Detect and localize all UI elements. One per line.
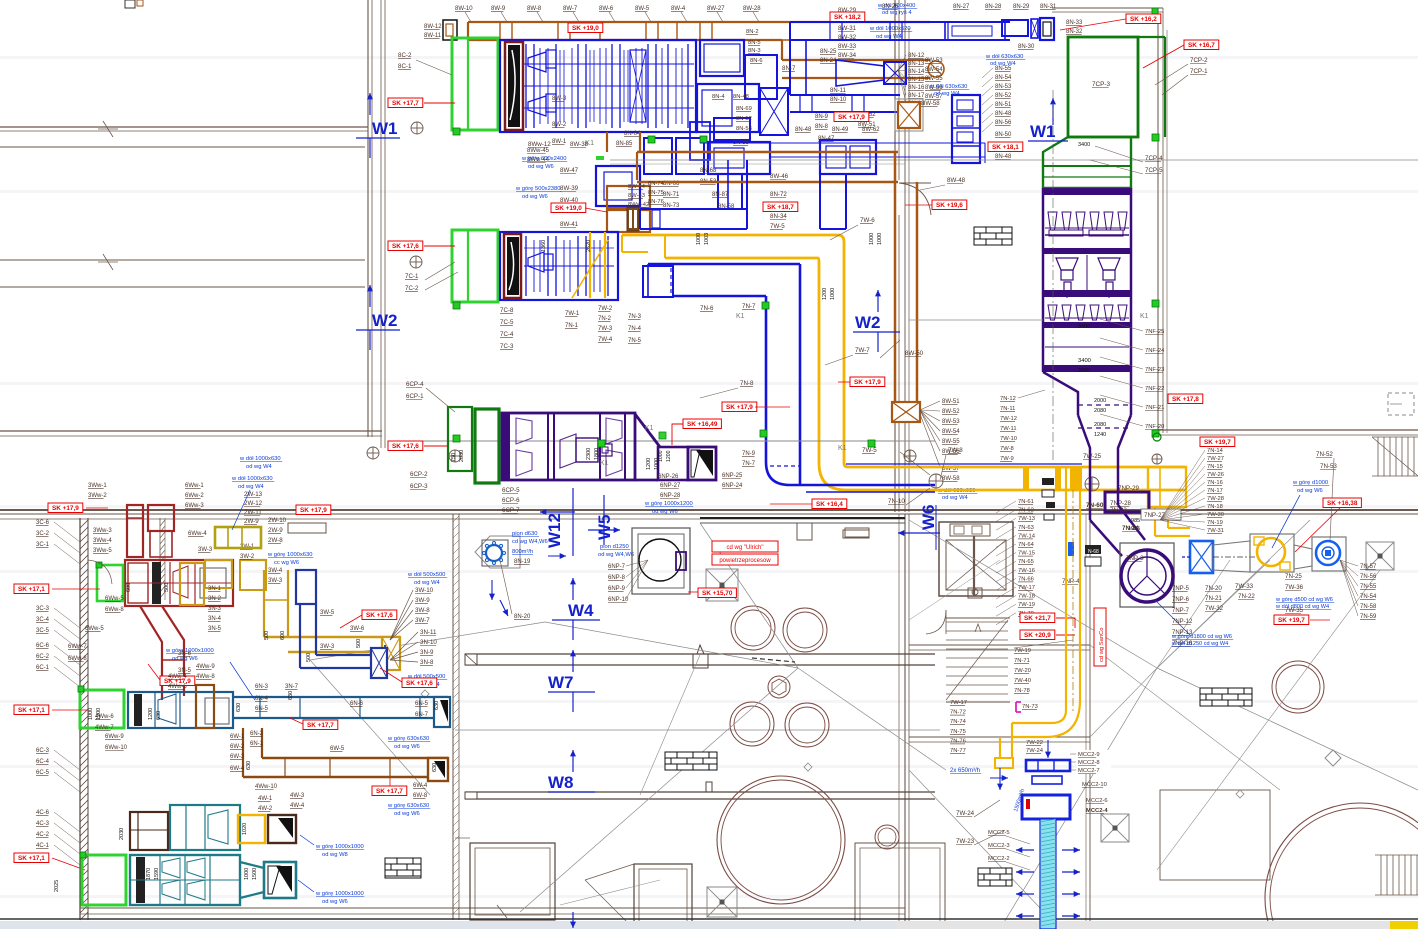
room rect bottom-center-right bbox=[634, 864, 692, 929]
duct 8W elbow right bbox=[782, 21, 930, 23]
svg-text:K1: K1 bbox=[1140, 313, 1149, 320]
red SK +21,7 / +20,9 bbox=[1020, 613, 1055, 623]
yellow 4W box bbox=[238, 815, 265, 843]
svg-text:SK +17,6: SK +17,6 bbox=[392, 243, 419, 250]
svg-text:w górę 600x2400: w górę 600x2400 bbox=[521, 156, 566, 162]
svg-text:1590: 1590 bbox=[154, 868, 160, 880]
svg-text:8Ww-12: 8Ww-12 bbox=[528, 141, 551, 148]
svg-text:3400: 3400 bbox=[1078, 324, 1090, 330]
svg-text:7NP-5: 7NP-5 bbox=[1172, 586, 1190, 592]
svg-text:630: 630 bbox=[434, 701, 440, 710]
svg-text:K1: K1 bbox=[600, 460, 609, 467]
svg-text:3W-3: 3W-3 bbox=[198, 547, 213, 553]
roof diagonals center bbox=[545, 622, 798, 668]
svg-text:w dół 1000x620: w dół 1000x620 bbox=[869, 26, 911, 32]
gray arc door bottom-left bbox=[88, 560, 112, 584]
svg-text:7W-24: 7W-24 bbox=[956, 810, 975, 817]
brown 6W vertical piece near AHU bbox=[196, 685, 214, 728]
svg-text:MCC2-4: MCC2-4 bbox=[1086, 808, 1108, 814]
device 6NP-7 square fan bbox=[632, 528, 690, 594]
svg-text:powietrzeprocesow: powietrzeprocesow bbox=[719, 558, 771, 564]
svg-text:7W-27: 7W-27 bbox=[1207, 456, 1224, 462]
svg-text:8N-29: 8N-29 bbox=[1013, 4, 1030, 10]
lime box 6C bbox=[80, 690, 124, 728]
svg-text:3C-1: 3C-1 bbox=[36, 542, 50, 548]
6NP fan bells bbox=[516, 418, 532, 444]
svg-text:6Ww-9: 6Ww-9 bbox=[105, 734, 124, 740]
svg-text:8N-56: 8N-56 bbox=[995, 120, 1012, 126]
svg-text:7N-55: 7N-55 bbox=[1360, 584, 1377, 590]
svg-text:8W-28: 8W-28 bbox=[743, 6, 761, 12]
AHU2 internals bbox=[525, 236, 527, 296]
svg-text:SK +17,9: SK +17,9 bbox=[726, 404, 753, 411]
svg-text:8N-64: 8N-64 bbox=[624, 131, 641, 137]
svg-text:7N-19: 7N-19 bbox=[1207, 520, 1223, 526]
svg-text:2030: 2030 bbox=[459, 450, 465, 462]
svg-text:w górę d500 cd wg W6: w górę d500 cd wg W6 bbox=[1275, 597, 1333, 603]
gray line y160 bbox=[610, 159, 1418, 161]
long wall y510 bbox=[0, 509, 1418, 511]
svg-text:6CP-6: 6CP-6 bbox=[502, 497, 520, 504]
svg-text:1360: 1360 bbox=[541, 240, 547, 252]
svg-text:8W-2: 8W-2 bbox=[552, 122, 567, 128]
svg-text:7N-57: 7N-57 bbox=[1360, 564, 1377, 570]
svg-text:8N-74: 8N-74 bbox=[648, 181, 665, 187]
svg-text:W8: W8 bbox=[548, 773, 574, 792]
brown damper box 8W end bbox=[892, 402, 920, 422]
svg-text:7W-33: 7W-33 bbox=[1235, 583, 1254, 590]
svg-text:1000: 1000 bbox=[88, 708, 94, 720]
red SK +17,8 tower bbox=[1168, 394, 1203, 404]
svg-text:3Ww-3: 3Ww-3 bbox=[93, 528, 112, 534]
svg-text:7N-72: 7N-72 bbox=[950, 710, 966, 716]
svg-text:630: 630 bbox=[432, 763, 438, 772]
svg-text:8N-27: 8N-27 bbox=[953, 4, 970, 10]
leader fan 8W-51..58 right col bbox=[920, 401, 940, 410]
small dark boxes at 7N-60 crossing bbox=[1042, 478, 1054, 485]
svg-text:3W-9: 3W-9 bbox=[415, 597, 430, 604]
MCC labels bbox=[1077, 750, 1111, 758]
svg-text:1200: 1200 bbox=[148, 708, 154, 720]
maroon inlet AHU1 bbox=[505, 42, 523, 130]
svg-text:SK +16,2: SK +16,2 bbox=[1130, 16, 1157, 23]
svg-text:SK +17,9: SK +17,9 bbox=[300, 507, 327, 514]
svg-text:4C-1: 4C-1 bbox=[36, 843, 50, 849]
svg-text:6N-3: 6N-3 bbox=[255, 684, 269, 690]
svg-text:7N-25: 7N-25 bbox=[1285, 573, 1302, 580]
svg-text:8W-33: 8W-33 bbox=[838, 43, 857, 50]
svg-text:1000: 1000 bbox=[877, 233, 883, 245]
steel 6N duct run bbox=[233, 696, 448, 698]
svg-text:6NP-25: 6NP-25 bbox=[722, 473, 743, 479]
svg-text:6W-3: 6W-3 bbox=[230, 754, 245, 760]
svg-text:4W-4: 4W-4 bbox=[290, 803, 305, 809]
svg-text:8N-3: 8N-3 bbox=[748, 48, 761, 54]
svg-text:6C-3: 6C-3 bbox=[36, 748, 50, 754]
svg-text:8N-68: 8N-68 bbox=[700, 168, 717, 174]
svg-text:od wg W4: od wg W4 bbox=[238, 484, 265, 490]
diamond near Ulrich bbox=[706, 569, 738, 601]
svg-text:7N-21: 7N-21 bbox=[1205, 595, 1222, 602]
svg-text:8N-9: 8N-9 bbox=[815, 114, 829, 120]
svg-text:6NP-27: 6NP-27 bbox=[660, 483, 681, 489]
svg-text:8W-53: 8W-53 bbox=[925, 58, 943, 64]
wall top-left horizontal upper bbox=[0, 126, 368, 128]
MCC2 big blue box bbox=[1022, 795, 1070, 819]
thin blue lines y143/152 bbox=[700, 142, 985, 144]
svg-text:7NF-22: 7NF-22 bbox=[1145, 386, 1164, 392]
svg-text:7N-16: 7N-16 bbox=[1207, 480, 1223, 486]
7NP-27 white box label bbox=[1141, 509, 1181, 520]
svg-text:4Ww-4: 4Ww-4 bbox=[168, 674, 187, 680]
svg-text:8N-5: 8N-5 bbox=[748, 40, 761, 46]
svg-text:8N-53: 8N-53 bbox=[736, 126, 752, 132]
red SK +19,6 bbox=[932, 200, 967, 210]
svg-text:2300: 2300 bbox=[586, 448, 592, 460]
svg-text:MCC2-6: MCC2-6 bbox=[1086, 798, 1108, 804]
svg-text:SK +17,7: SK +17,7 bbox=[376, 788, 403, 795]
svg-text:w dół d1250 cd wg W4: w dół d1250 cd wg W4 bbox=[1171, 641, 1228, 647]
rooms bottom right of wall bbox=[855, 843, 945, 929]
svg-text:2000: 2000 bbox=[1094, 398, 1106, 404]
svg-text:7W-25: 7W-25 bbox=[1083, 453, 1102, 460]
beams right of wall y645 bbox=[909, 644, 1090, 646]
svg-text:7N-74: 7N-74 bbox=[950, 719, 967, 725]
wall top-left bottom pair bbox=[0, 430, 382, 432]
7CP-3 dark green box bbox=[1068, 37, 1138, 137]
cyan hatched strip bbox=[1040, 819, 1056, 929]
svg-text:600: 600 bbox=[126, 583, 132, 592]
yellow risers AHU2 bbox=[589, 232, 591, 298]
svg-text:od wg W4: od wg W4 bbox=[246, 464, 273, 470]
door arc center wall bbox=[899, 183, 931, 215]
svg-text:7W-4: 7W-4 bbox=[598, 337, 613, 343]
labels 7W-17..7N-76 left col (x952) done above; add 7W-18/19 leaders bbox=[1014, 640, 1073, 648]
svg-text:w górę d1800 cd wg W6: w górę d1800 cd wg W6 bbox=[1171, 634, 1232, 640]
svg-text:8N-4: 8N-4 bbox=[712, 94, 725, 100]
svg-text:7N-58: 7N-58 bbox=[1360, 604, 1377, 610]
svg-text:6C-2: 6C-2 bbox=[36, 654, 50, 660]
svg-text:W1: W1 bbox=[1030, 122, 1056, 141]
svg-text:w dół 500x500: w dół 500x500 bbox=[407, 572, 445, 578]
svg-text:3N-5: 3N-5 bbox=[208, 626, 222, 632]
svg-text:6N-4: 6N-4 bbox=[255, 696, 269, 702]
svg-text:7NP-7: 7NP-7 bbox=[1172, 608, 1190, 614]
red labels center bbox=[850, 377, 885, 387]
svg-text:8N-69: 8N-69 bbox=[736, 106, 752, 112]
svg-text:3400: 3400 bbox=[1078, 358, 1091, 364]
svg-text:8N-71: 8N-71 bbox=[663, 192, 680, 198]
wall vertical x453 center-bottom bbox=[452, 514, 454, 920]
svg-text:3N-4: 3N-4 bbox=[208, 616, 222, 622]
svg-text:7W-40: 7W-40 bbox=[1014, 678, 1031, 684]
svg-text:8W-46: 8W-46 bbox=[770, 173, 789, 180]
svg-text:6Ww-5: 6Ww-5 bbox=[105, 596, 124, 602]
svg-text:6W-1: 6W-1 bbox=[230, 734, 245, 740]
svg-text:7W-28: 7W-28 bbox=[1207, 496, 1224, 502]
svg-text:8N-31: 8N-31 bbox=[1040, 4, 1057, 10]
pylon diamond bottom-center bbox=[707, 887, 737, 917]
svg-text:8N-52: 8N-52 bbox=[995, 93, 1012, 99]
duct 8W top brown run bbox=[468, 21, 782, 23]
svg-text:6N-7: 6N-7 bbox=[415, 712, 429, 718]
beam thin y730 bbox=[455, 729, 940, 731]
svg-text:8W-27: 8W-27 bbox=[707, 6, 725, 12]
svg-text:MCC2-8: MCC2-8 bbox=[1078, 760, 1100, 766]
svg-text:3W-8: 3W-8 bbox=[415, 607, 430, 614]
svg-text:7W-19: 7W-19 bbox=[1018, 602, 1035, 608]
svg-text:8N-28: 8N-28 bbox=[985, 4, 1002, 10]
beams center band2 bbox=[465, 791, 935, 793]
svg-text:7N-9: 7N-9 bbox=[742, 451, 756, 457]
svg-text:8N-48: 8N-48 bbox=[995, 111, 1012, 117]
svg-text:8N-10: 8N-10 bbox=[830, 97, 847, 103]
survey circles left bbox=[411, 122, 423, 134]
svg-text:od wg W6: od wg W6 bbox=[172, 656, 198, 662]
svg-text:w dół 1000x630: w dół 1000x630 bbox=[239, 456, 281, 462]
svg-text:630: 630 bbox=[156, 711, 162, 720]
svg-text:8N-19: 8N-19 bbox=[514, 559, 531, 565]
wall right horizontal y430 bbox=[1158, 429, 1418, 431]
svg-text:7N-75: 7N-75 bbox=[950, 729, 966, 735]
svg-text:8W-6: 8W-6 bbox=[599, 6, 614, 12]
yellow flange bars on horizontal bbox=[1023, 468, 1029, 489]
svg-text:7N-7: 7N-7 bbox=[742, 461, 756, 467]
svg-text:2080: 2080 bbox=[1094, 408, 1106, 414]
svg-text:6C-5: 6C-5 bbox=[36, 770, 50, 776]
svg-text:7W-1: 7W-1 bbox=[565, 311, 580, 317]
svg-text:8Ww-45: 8Ww-45 bbox=[527, 148, 550, 154]
brown boxes 8W-40/41 bbox=[607, 186, 650, 208]
svg-text:7N-63: 7N-63 bbox=[1018, 525, 1034, 531]
svg-text:7W-31: 7W-31 bbox=[1207, 528, 1224, 534]
svg-text:7N-12: 7N-12 bbox=[1000, 396, 1016, 402]
svg-text:w górę 500x2380: w górę 500x2380 bbox=[515, 186, 560, 192]
stairs right lower (x1375,y860) bbox=[1375, 854, 1418, 856]
svg-text:7W-13: 7W-13 bbox=[1018, 516, 1035, 522]
svg-text:SK +19,0: SK +19,0 bbox=[555, 205, 582, 212]
brown vertical 8W-50 bbox=[894, 152, 897, 402]
room rect bottom-center-left bbox=[470, 843, 555, 920]
svg-text:SK +17,1: SK +17,1 bbox=[18, 707, 45, 714]
yellow loop top horizontals bbox=[622, 234, 838, 237]
svg-text:8W-38: 8W-38 bbox=[570, 141, 589, 148]
damper circle 8W end bbox=[928, 61, 944, 77]
svg-text:7C-1: 7C-1 bbox=[405, 273, 419, 280]
blue 7N horizontals bbox=[648, 263, 800, 266]
svg-text:od wg W4,W6: od wg W4,W6 bbox=[598, 552, 634, 558]
svg-text:8W-1: 8W-1 bbox=[552, 139, 567, 145]
svg-text:8N-85: 8N-85 bbox=[616, 141, 633, 147]
6NP wedge box bbox=[688, 447, 716, 480]
svg-text:7N-18: 7N-18 bbox=[1207, 504, 1223, 510]
svg-text:6NP-9: 6NP-9 bbox=[608, 586, 626, 592]
svg-text:3400: 3400 bbox=[1078, 142, 1090, 148]
svg-text:cd wg W4,W6: cd wg W4,W6 bbox=[512, 539, 548, 545]
svg-text:8N-26: 8N-26 bbox=[882, 4, 899, 10]
svg-text:od wg W4: od wg W4 bbox=[414, 580, 441, 586]
purple tower bbox=[1042, 188, 1045, 372]
svg-text:7W-11: 7W-11 bbox=[1000, 426, 1017, 432]
svg-text:7CP-2: 7CP-2 bbox=[1190, 57, 1208, 64]
svg-text:3W-10: 3W-10 bbox=[415, 587, 434, 594]
svg-text:2x 650m³/h: 2x 650m³/h bbox=[950, 768, 980, 774]
teal AHU big bbox=[130, 855, 240, 905]
svg-text:cd wg "Ulrich": cd wg "Ulrich" bbox=[727, 545, 764, 551]
svg-text:8N-34: 8N-34 bbox=[770, 213, 787, 220]
svg-text:7W-12: 7W-12 bbox=[1000, 416, 1017, 422]
svg-text:6W-8: 6W-8 bbox=[413, 793, 428, 799]
svg-text:SK +18,2: SK +18,2 bbox=[834, 14, 861, 21]
yellow bottom elbow to horizontal bbox=[819, 463, 1185, 490]
svg-text:7C-3: 7C-3 bbox=[500, 343, 514, 350]
small wall marks left of elevator bbox=[843, 530, 869, 538]
yellow vertical to elbow bbox=[1154, 507, 1156, 536]
green markers tower bbox=[1152, 134, 1159, 141]
svg-text:7NP-4: 7NP-4 bbox=[1062, 578, 1080, 585]
svg-text:8W-41: 8W-41 bbox=[560, 221, 579, 228]
6NP AHU body bbox=[502, 413, 635, 480]
svg-text:7W-16: 7W-16 bbox=[1018, 568, 1035, 574]
svg-text:7N-2: 7N-2 bbox=[598, 316, 612, 322]
svg-text:3Ww-4: 3Ww-4 bbox=[93, 538, 112, 544]
svg-text:7N-60: 7N-60 bbox=[1086, 502, 1104, 509]
MCC blue bars bbox=[1026, 760, 1070, 771]
svg-text:6Ww-8: 6Ww-8 bbox=[68, 656, 87, 662]
red SanCo rotated note bbox=[1094, 608, 1106, 666]
svg-text:7C-2: 7C-2 bbox=[405, 285, 419, 292]
svg-text:8W-52: 8W-52 bbox=[942, 409, 960, 415]
svg-text:7W-7: 7W-7 bbox=[855, 347, 870, 354]
svg-text:6CP-1: 6CP-1 bbox=[406, 393, 424, 400]
svg-text:3W-4: 3W-4 bbox=[268, 568, 283, 574]
svg-text:od wg W4: od wg W4 bbox=[942, 495, 969, 501]
yellow bottom elbow to MCC bbox=[1012, 710, 1066, 723]
svg-text:SK +19,7: SK +19,7 bbox=[1204, 439, 1231, 446]
teal 4Ww upper row bbox=[130, 812, 168, 850]
svg-text:6NP-8: 6NP-8 bbox=[608, 575, 626, 581]
svg-text:6N-6: 6N-6 bbox=[350, 701, 364, 707]
wall top-right vertical x1158 bbox=[1157, 8, 1159, 433]
svg-text:SK +16,7: SK +16,7 bbox=[1188, 42, 1215, 49]
svg-text:SK +17,9: SK +17,9 bbox=[838, 114, 865, 121]
svg-text:7N-22: 7N-22 bbox=[1238, 593, 1255, 600]
nozzle row 1 bbox=[1048, 212, 1057, 230]
svg-text:8W-55: 8W-55 bbox=[942, 439, 960, 445]
svg-text:w dół 630x630: w dół 630x630 bbox=[929, 84, 967, 90]
svg-text:od wg W4: od wg W4 bbox=[934, 91, 961, 97]
svg-text:7W-6: 7W-6 bbox=[860, 217, 875, 224]
svg-text:8C-2: 8C-2 bbox=[398, 52, 412, 59]
svg-text:7W-24: 7W-24 bbox=[1026, 748, 1044, 754]
svg-text:SK +19,7: SK +19,7 bbox=[1278, 617, 1305, 624]
svg-text:8N-6: 8N-6 bbox=[750, 58, 763, 64]
leader fans 3W-10..3N-8 right bbox=[390, 590, 413, 640]
svg-text:1500: 1500 bbox=[252, 868, 258, 880]
svg-text:od wg W4: od wg W4 bbox=[990, 61, 1017, 67]
hatched wall bottom-left top stub bbox=[159, 518, 161, 600]
gold vertical pair bbox=[263, 570, 265, 637]
svg-text:6N-2: 6N-2 bbox=[250, 731, 264, 737]
svg-text:7NF-20: 7NF-20 bbox=[1145, 424, 1164, 430]
blue round device bbox=[1312, 537, 1346, 571]
blue 7N elbow down bbox=[799, 264, 802, 485]
svg-text:7W-8: 7W-8 bbox=[1000, 446, 1014, 452]
red SK +18,7 bbox=[763, 202, 798, 212]
svg-text:6W-4: 6W-4 bbox=[413, 783, 428, 789]
dashed segment near beam bbox=[752, 658, 795, 662]
svg-text:8W-48: 8W-48 bbox=[947, 177, 966, 184]
brick blocks bbox=[974, 227, 1012, 245]
svg-text:SK +17,8: SK +17,8 bbox=[1172, 396, 1199, 403]
svg-text:SK +21,7: SK +21,7 bbox=[1024, 615, 1051, 622]
blue line above yellow bbox=[846, 463, 1082, 465]
svg-text:8N-14: 8N-14 bbox=[908, 69, 925, 75]
svg-text:8N-24: 8N-24 bbox=[820, 58, 837, 64]
svg-text:od wg W4: od wg W4 bbox=[876, 34, 903, 40]
maroon diagonal duct bbox=[140, 606, 162, 688]
7CP trapezoid section bbox=[1043, 137, 1131, 188]
dark green cap 6NP bbox=[448, 407, 472, 471]
svg-text:8N-87: 8N-87 bbox=[712, 192, 729, 198]
svg-text:8N-51: 8N-51 bbox=[995, 102, 1012, 108]
svg-text:6Ww-3: 6Ww-3 bbox=[185, 503, 204, 509]
gold 3W risers + elbows bbox=[180, 563, 204, 605]
transition bbox=[1213, 541, 1250, 572]
svg-text:6Ww-1: 6Ww-1 bbox=[185, 483, 204, 489]
svg-text:w dół 1000x630: w dół 1000x630 bbox=[231, 476, 273, 482]
svg-text:SK +17,1: SK +17,1 bbox=[18, 855, 45, 862]
elevator shaft bbox=[939, 522, 1013, 596]
svg-text:2025: 2025 bbox=[54, 880, 60, 892]
dashed service box right bbox=[1388, 393, 1414, 415]
blue small duct stack x955 bbox=[952, 95, 980, 163]
svg-text:W2: W2 bbox=[855, 313, 881, 332]
svg-text:8N-33: 8N-33 bbox=[1066, 20, 1083, 26]
roof diagonals right field bbox=[909, 520, 1157, 668]
svg-text:6W-5: 6W-5 bbox=[330, 746, 345, 752]
small blue boxes above right of AHU1 bbox=[700, 40, 744, 76]
lime box 3C bbox=[97, 565, 123, 601]
svg-text:6C-4: 6C-4 bbox=[36, 759, 50, 765]
machine row: blue X box bbox=[1190, 541, 1213, 573]
blue boxes 8N-68/67/58 bbox=[820, 140, 876, 174]
svg-text:2W-9: 2W-9 bbox=[244, 518, 259, 525]
svg-text:630: 630 bbox=[246, 761, 252, 770]
bottom strip bbox=[0, 918, 1418, 920]
svg-text:7W-2: 7W-2 bbox=[598, 306, 613, 312]
7NP-3 fan bbox=[1120, 543, 1174, 607]
svg-text:7N-14: 7N-14 bbox=[1207, 448, 1224, 454]
svg-text:630: 630 bbox=[288, 691, 294, 700]
svg-text:3Ww-1: 3Ww-1 bbox=[88, 483, 107, 489]
svg-text:6NP-26: 6NP-26 bbox=[658, 474, 679, 480]
svg-text:7N-66: 7N-66 bbox=[1018, 576, 1034, 582]
svg-text:8W-55: 8W-55 bbox=[925, 76, 943, 82]
brown band 8W-46 bbox=[637, 151, 898, 154]
svg-text:4W-3: 4W-3 bbox=[290, 793, 305, 799]
wall top-left horizontal mid bbox=[0, 146, 365, 148]
svg-text:6CP-4: 6CP-4 bbox=[406, 381, 424, 388]
svg-text:6Ww-8: 6Ww-8 bbox=[105, 607, 124, 613]
svg-text:8N-13: 8N-13 bbox=[908, 61, 925, 67]
tiny diamonds bbox=[421, 690, 429, 698]
svg-text:800m³/h: 800m³/h bbox=[512, 549, 533, 555]
small tank hexagon bbox=[768, 676, 790, 698]
svg-text:7N-56: 7N-56 bbox=[1360, 574, 1377, 580]
roof diagonal lines bottom-left room bbox=[310, 660, 430, 795]
svg-text:6N-5: 6N-5 bbox=[255, 706, 269, 712]
